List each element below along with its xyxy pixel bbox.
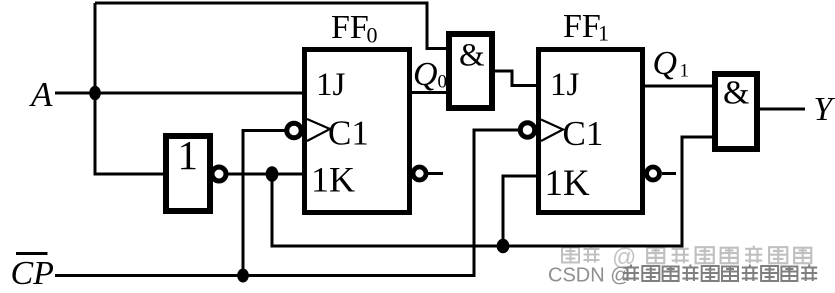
svg-text:&: & (459, 38, 485, 74)
svg-text:1J: 1J (550, 67, 580, 103)
svg-text:0: 0 (367, 23, 378, 48)
svg-text:C1: C1 (563, 114, 604, 153)
svg-text:1K: 1K (311, 160, 355, 200)
svg-text:A: A (29, 75, 53, 114)
svg-text:0: 0 (438, 72, 448, 93)
svg-text:1: 1 (178, 132, 199, 178)
svg-text:&: & (723, 75, 749, 112)
svg-text:Q: Q (653, 45, 678, 82)
svg-text:FF: FF (331, 9, 369, 46)
svg-text:FF: FF (563, 8, 601, 45)
svg-text:CSDN @: CSDN @ (548, 265, 631, 287)
svg-text:1K: 1K (545, 163, 591, 204)
svg-text:Q: Q (413, 56, 438, 93)
svg-text:Y: Y (814, 91, 835, 128)
svg-text:1J: 1J (316, 67, 346, 103)
svg-text:C1: C1 (328, 114, 369, 153)
svg-text:CP: CP (11, 255, 54, 292)
svg-text:1: 1 (598, 21, 609, 46)
svg-text:1: 1 (680, 61, 690, 82)
